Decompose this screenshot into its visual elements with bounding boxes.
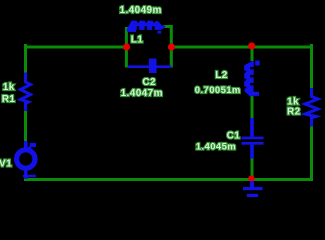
node right tank junction xyxy=(168,43,175,50)
svg-text:R1: R1 xyxy=(2,94,16,105)
inductor L2 pin1 mark xyxy=(255,61,260,66)
wire top-right horizontal xyxy=(255,46,312,49)
svg-text:1k: 1k xyxy=(3,82,15,93)
wire bottom horizontal xyxy=(26,178,312,181)
ground xyxy=(243,181,263,197)
svg-text:1.4049m: 1.4049m xyxy=(120,5,162,16)
capacitor C1 xyxy=(242,118,264,159)
wire C1 bottom stub xyxy=(251,158,254,178)
wire top-left horizontal xyxy=(26,46,124,49)
svg-text:1.4047m: 1.4047m xyxy=(121,88,163,99)
inductor L1 pin2 mark xyxy=(158,31,162,34)
resistor R1 xyxy=(21,73,31,112)
capacitor C2 xyxy=(128,59,171,74)
wire top-middle horizontal xyxy=(175,46,248,49)
wire tank left stub xyxy=(125,29,128,67)
node ground junction xyxy=(248,175,255,182)
node L2 top junction xyxy=(248,42,255,49)
inductor L2 pin2 mark xyxy=(253,92,259,96)
resistor R2 xyxy=(305,88,318,127)
svg-text:L1: L1 xyxy=(131,34,144,45)
wire L2-C1 middle stub xyxy=(251,96,254,118)
svg-text:L2: L2 xyxy=(215,70,228,81)
voltage source V1 plus knob xyxy=(30,143,36,147)
inductor L1 xyxy=(126,21,165,30)
svg-text:C1: C1 xyxy=(227,130,241,141)
wire tank right stub xyxy=(165,27,171,67)
svg-text:0.70051m: 0.70051m xyxy=(195,85,241,96)
wire L2 top stub xyxy=(251,46,254,60)
wire left vertical upper xyxy=(24,46,27,74)
wire right vertical lower xyxy=(310,126,313,180)
voltage source V1 xyxy=(17,141,36,179)
svg-text:1.4045m: 1.4045m xyxy=(196,142,236,153)
voltage source V1 sine stroke xyxy=(29,147,34,154)
wire left vertical lower xyxy=(24,111,27,141)
inductor L2 xyxy=(244,60,254,96)
svg-text:V1: V1 xyxy=(0,159,12,170)
inductor L1 pin1 mark xyxy=(127,29,136,32)
node left tank junction xyxy=(123,43,130,50)
wire right vertical upper xyxy=(310,46,313,89)
svg-text:C2: C2 xyxy=(142,77,156,88)
svg-text:R2: R2 xyxy=(287,107,301,118)
